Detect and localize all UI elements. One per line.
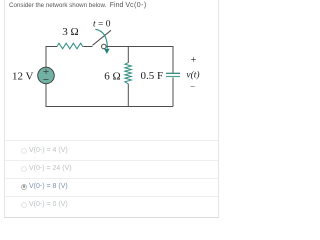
svg-text:0.5 F: 0.5 F	[140, 70, 163, 82]
svg-text:−: −	[190, 82, 195, 92]
svg-text:+: +	[191, 55, 197, 66]
svg-text:v(t): v(t)	[186, 70, 199, 81]
svg-text:t = 0: t = 0	[93, 20, 111, 30]
svg-text:3 Ω: 3 Ω	[62, 26, 78, 38]
svg-text:6 Ω: 6 Ω	[104, 71, 120, 83]
svg-text:12 V: 12 V	[12, 71, 34, 83]
